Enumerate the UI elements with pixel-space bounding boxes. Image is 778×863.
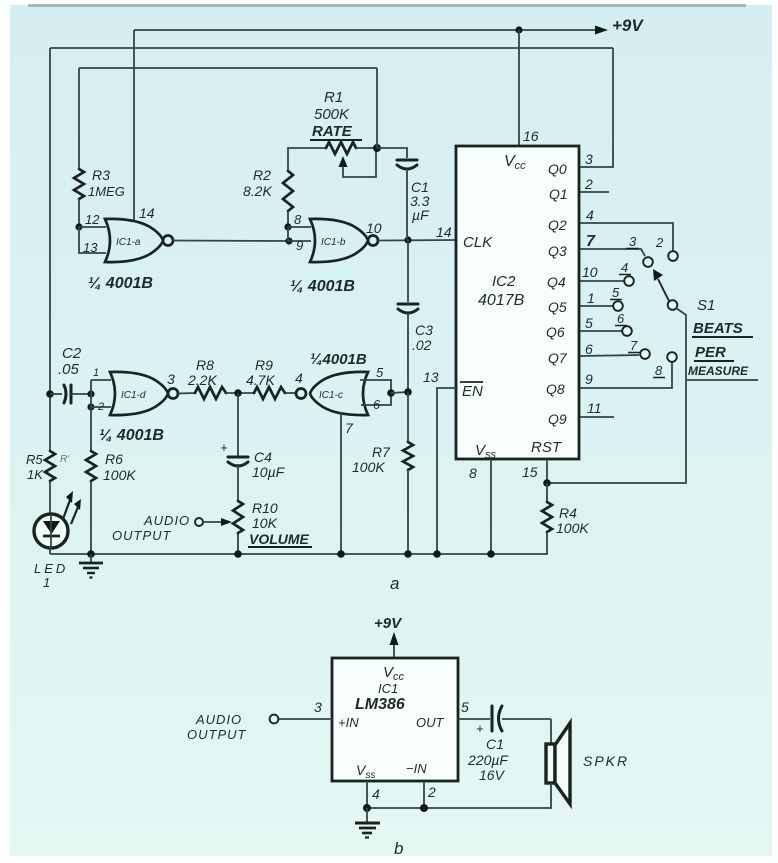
wire Vcc pin16 drop <box>518 30 520 146</box>
node C2 tap on left rail <box>46 390 54 398</box>
svg-text:16: 16 <box>523 128 539 144</box>
svg-text:BEATS: BEATS <box>693 320 743 337</box>
capacitor C2 <box>50 393 62 395</box>
wire +9V rail <box>134 29 597 31</box>
capacitor C4 <box>237 393 239 456</box>
svg-text:1K: 1K <box>27 467 44 482</box>
svg-text:Q9: Q9 <box>548 411 567 427</box>
switch contact 8 <box>667 352 677 362</box>
svg-text:R8: R8 <box>196 357 214 373</box>
wire IC1-c input loop pins 5 6 <box>360 380 391 405</box>
wire Q5 pin1 to contact 5 <box>580 305 613 307</box>
svg-text:RATE: RATE <box>312 123 353 140</box>
op-amp gate IC1-b <box>310 219 368 262</box>
svg-text:1: 1 <box>587 290 595 306</box>
svg-text:C4: C4 <box>254 449 272 465</box>
svg-text:OUTPUT: OUTPUT <box>187 727 247 742</box>
node R1 junction <box>373 144 381 152</box>
svg-text:2: 2 <box>97 401 104 413</box>
resistor R6 <box>90 407 92 451</box>
svg-text:¼ 4001B: ¼ 4001B <box>290 278 355 295</box>
svg-text:Q0: Q0 <box>548 161 567 177</box>
svg-text:220µF: 220µF <box>467 752 509 768</box>
wire R9 to IC1-c <box>285 392 296 394</box>
wire left rail upper <box>49 48 51 451</box>
node IC1-a input <box>75 223 82 230</box>
svg-text:Q4: Q4 <box>547 274 566 290</box>
resistor R8 <box>195 387 226 399</box>
resistor R9 <box>254 387 285 399</box>
svg-text:IC2: IC2 <box>492 273 516 290</box>
wire pin13 loop <box>79 227 106 253</box>
svg-text:7: 7 <box>586 233 596 250</box>
wire LED to rail <box>49 546 51 554</box>
wire R3 top rail <box>79 67 377 69</box>
svg-text:8: 8 <box>469 465 477 481</box>
svg-text:10µF: 10µF <box>252 464 286 480</box>
wire input pin3 <box>279 718 332 720</box>
svg-text:15: 15 <box>522 464 538 480</box>
wire R8-R9 <box>226 392 254 394</box>
svg-text:R1: R1 <box>324 89 343 106</box>
svg-text:IC1-a: IC1-a <box>116 237 141 248</box>
svg-text:2: 2 <box>584 176 593 192</box>
switch contact 7 <box>640 349 650 359</box>
audio output terminal a <box>195 518 203 526</box>
node R6 rail <box>87 550 95 558</box>
svg-text:10: 10 <box>366 220 382 236</box>
svg-text:4: 4 <box>295 370 303 386</box>
svg-text:Q3: Q3 <box>548 243 567 259</box>
wire to speaker <box>550 719 552 744</box>
svg-text:+9V: +9V <box>612 16 644 35</box>
svg-text:5: 5 <box>461 699 469 715</box>
potentiometer R10 <box>233 501 243 533</box>
svg-text:4: 4 <box>372 786 380 802</box>
wire pin2 <box>423 781 425 808</box>
svg-text:8: 8 <box>294 212 302 227</box>
svg-text:IC1-c: IC1-c <box>319 390 343 401</box>
svg-text:C2: C2 <box>62 345 82 362</box>
svg-text:1: 1 <box>93 367 99 379</box>
svg-text:10: 10 <box>582 264 598 280</box>
wire Q9 pin11 stub <box>580 416 614 418</box>
wire IC1-c pin7 to ground rail <box>340 413 342 554</box>
svg-text:5: 5 <box>612 285 620 300</box>
resistor R2 <box>283 171 293 211</box>
svg-text:Q7: Q7 <box>548 350 568 366</box>
ground symbol B <box>366 808 368 822</box>
pin 13 EN wire <box>437 388 456 554</box>
wire R5 to LED <box>49 481 51 514</box>
ground symbol A <box>90 554 92 562</box>
svg-text:R5: R5 <box>26 452 43 467</box>
svg-text:R': R' <box>60 454 70 465</box>
svg-text:Q8: Q8 <box>546 381 565 397</box>
switch contact 2 <box>668 251 678 261</box>
svg-text:2: 2 <box>427 784 436 800</box>
svg-text:EN: EN <box>462 383 483 400</box>
wire R3 riser <box>78 68 80 169</box>
wire IC1-d out <box>178 392 195 395</box>
wire R1 left corner to R2 <box>288 148 326 171</box>
svg-text:12: 12 <box>85 212 100 227</box>
node rail junctions <box>337 550 345 558</box>
resistor R4 <box>546 483 548 502</box>
svg-text:+9V: +9V <box>374 615 403 632</box>
node RST junction <box>543 479 551 487</box>
audio output terminal b <box>270 715 279 724</box>
svg-text:IC1-b: IC1-b <box>321 237 346 248</box>
svg-text:AUDIO: AUDIO <box>195 712 242 727</box>
svg-text:a: a <box>390 574 399 593</box>
svg-text:6: 6 <box>373 397 381 412</box>
IC2 box <box>456 146 579 459</box>
svg-text:1: 1 <box>43 575 50 590</box>
svg-text:4: 4 <box>586 207 594 223</box>
svg-text:S1: S1 <box>697 297 715 314</box>
svg-text:1MEG: 1MEG <box>88 184 125 199</box>
potentiometer R1 <box>326 142 356 154</box>
wire R2 to pin8 node <box>287 211 289 227</box>
wire IC1-d input loop <box>91 379 111 381</box>
svg-text:R4: R4 <box>559 505 577 521</box>
svg-text:3: 3 <box>167 371 175 387</box>
svg-text:¼ 4001B: ¼ 4001B <box>99 427 164 444</box>
svg-text:RST: RST <box>531 439 563 456</box>
svg-text:¼ 4001B: ¼ 4001B <box>88 275 153 292</box>
svg-text:100K: 100K <box>103 467 136 483</box>
svg-text:PER: PER <box>695 344 726 361</box>
top scan edge line <box>28 4 746 7</box>
wire IC1-b out to CLK <box>378 239 456 242</box>
svg-text:¼4001B: ¼4001B <box>310 351 367 368</box>
wire Q4 pin10 to contact 4 <box>580 280 624 282</box>
svg-text:3: 3 <box>629 234 637 249</box>
svg-text:R2: R2 <box>253 167 271 183</box>
wire Q8 pin9 to contact 8 <box>580 362 672 388</box>
svg-text:5: 5 <box>376 365 384 380</box>
svg-text:7: 7 <box>345 420 354 436</box>
pin 15 RST wire <box>546 459 548 483</box>
svg-text:2.2K: 2.2K <box>187 372 217 388</box>
node ground junction <box>363 804 371 812</box>
svg-text:4: 4 <box>621 260 628 275</box>
svg-text:C3: C3 <box>415 322 433 338</box>
wire IC1-a pin14 to +9V <box>133 30 135 221</box>
svg-text:Q5: Q5 <box>548 299 567 315</box>
svg-text:13: 13 <box>423 369 439 385</box>
wire pin8-pin9 tie <box>288 227 311 241</box>
svg-text:100K: 100K <box>352 459 385 475</box>
svg-text:b: b <box>394 839 403 858</box>
capacitor C3 <box>398 303 418 306</box>
switch contact 4 <box>624 276 634 286</box>
resistor R7 <box>407 392 409 442</box>
wire S1 common <box>548 308 686 483</box>
svg-text:AUDIO: AUDIO <box>143 513 190 528</box>
switch contact 5 <box>613 301 623 311</box>
svg-text:+: + <box>476 721 484 736</box>
capacitor C1 <box>397 159 417 162</box>
wire Q7 pin6 to contact 7 <box>580 355 639 356</box>
node +9V junction <box>515 26 522 33</box>
svg-text:4.7K: 4.7K <box>246 372 275 388</box>
wire Q0 feedback top <box>50 47 613 49</box>
svg-text:5: 5 <box>585 315 593 331</box>
svg-text:+: + <box>220 440 228 455</box>
node IC1-d pin2 tie <box>87 390 94 397</box>
resistor R5 <box>45 451 55 481</box>
svg-text:4017B: 4017B <box>478 292 525 309</box>
svg-text:R6: R6 <box>105 451 123 467</box>
svg-text:IC1-d: IC1-d <box>121 390 146 401</box>
svg-text:6: 6 <box>585 341 593 357</box>
svg-text:R9: R9 <box>255 357 273 373</box>
wire Q6 pin5 to contact 6 <box>580 330 622 332</box>
svg-text:9: 9 <box>585 371 593 387</box>
node R8 R9 junction <box>234 389 242 397</box>
op-amp gate IC1-a <box>105 219 163 262</box>
wire pin12 stub <box>79 226 106 228</box>
wire Q1 pin2 stub <box>580 191 609 193</box>
svg-text:14: 14 <box>139 205 155 221</box>
svg-text:3: 3 <box>314 699 322 715</box>
svg-text:+IN: +IN <box>338 715 359 730</box>
wire pin4 <box>366 781 368 808</box>
svg-text:Q6: Q6 <box>546 324 565 340</box>
svg-text:13: 13 <box>83 240 98 255</box>
svg-text:6: 6 <box>617 311 625 326</box>
svg-text:OUTPUT: OUTPUT <box>112 528 172 543</box>
svg-text:OUT: OUT <box>416 715 445 730</box>
power +9V arrow <box>595 26 608 35</box>
svg-text:−IN: −IN <box>406 761 427 776</box>
op-amp gate IC1-d <box>110 372 168 415</box>
op-amp gate IC1-c mirrored <box>296 389 306 399</box>
svg-text:Q1: Q1 <box>549 186 568 202</box>
svg-text:.02: .02 <box>412 337 432 353</box>
wire R1 riser <box>376 68 378 148</box>
node R10 rail <box>234 550 242 558</box>
svg-text:Q2: Q2 <box>548 217 567 233</box>
wire IC1-a out to IC1-b in <box>173 240 289 243</box>
node IC1-b pin8 <box>284 223 291 230</box>
switch S1 rotor <box>668 300 678 310</box>
speaker SPKR <box>546 744 555 783</box>
wire Q0 pin3 riser <box>580 48 613 167</box>
svg-text:9: 9 <box>296 238 303 253</box>
svg-text:VOLUME: VOLUME <box>249 531 310 547</box>
node pin2 junction <box>420 804 428 812</box>
svg-text:14: 14 <box>436 224 452 240</box>
power +9V arrow b <box>393 642 395 658</box>
wire R1 to C1 <box>377 148 407 158</box>
svg-text:R3: R3 <box>92 167 110 183</box>
svg-text:LED: LED <box>34 561 68 576</box>
svg-text:8.2K: 8.2K <box>243 183 272 199</box>
wire R3 to pin12 node <box>78 199 80 227</box>
svg-text:3: 3 <box>585 151 593 167</box>
svg-text:10K: 10K <box>252 515 278 531</box>
svg-text:2: 2 <box>655 235 664 250</box>
svg-text:CLK: CLK <box>463 234 493 251</box>
IC1 LM386 box <box>332 658 458 781</box>
svg-text:MEASURE: MEASURE <box>688 364 749 378</box>
svg-text:.05: .05 <box>58 361 80 378</box>
node CLK junction <box>404 236 411 243</box>
svg-text:16V: 16V <box>479 767 506 783</box>
svg-text:8: 8 <box>655 363 663 378</box>
switch contact 3 <box>643 257 653 267</box>
wire ground rail <box>50 553 548 555</box>
svg-text:SPKR: SPKR <box>583 753 629 769</box>
svg-text:500K: 500K <box>314 106 350 123</box>
svg-text:R10: R10 <box>252 500 278 516</box>
svg-text:µF: µF <box>412 207 430 223</box>
LED <box>34 514 68 548</box>
wire Q3 pin7 to contact 3 <box>580 249 645 256</box>
pin 8 Vss wire <box>490 459 492 554</box>
wire speaker return <box>367 783 551 808</box>
wire pin8 stub <box>288 226 311 228</box>
svg-text:11: 11 <box>587 400 602 416</box>
svg-text:LM386: LM386 <box>355 696 405 713</box>
svg-text:IC1: IC1 <box>378 681 398 696</box>
wire Q2 pin4 to S1 contact 2 <box>580 223 673 251</box>
wire output pin5 <box>458 718 490 720</box>
svg-text:7: 7 <box>630 338 638 353</box>
switch contact 6 <box>622 326 632 336</box>
svg-text:C1: C1 <box>486 736 504 752</box>
wire CLK to C3 <box>407 240 409 302</box>
svg-text:100K: 100K <box>556 520 589 536</box>
svg-text:R7: R7 <box>372 444 391 460</box>
node IC1-b pin9 <box>285 237 292 244</box>
resistor R3 <box>74 169 84 199</box>
